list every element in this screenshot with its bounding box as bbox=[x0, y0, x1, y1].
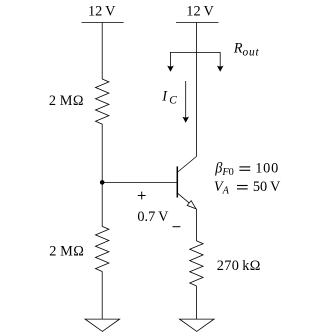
svg-text:50 V: 50 V bbox=[253, 179, 281, 195]
svg-text:2 MΩ: 2 MΩ bbox=[49, 93, 84, 109]
svg-text:12 V: 12 V bbox=[186, 3, 214, 19]
svg-text:270 kΩ: 270 kΩ bbox=[217, 258, 261, 274]
svg-text:100: 100 bbox=[255, 161, 279, 177]
svg-text:2 MΩ: 2 MΩ bbox=[49, 244, 84, 260]
svg-text:12 V: 12 V bbox=[88, 3, 116, 19]
svg-text:0.7 V: 0.7 V bbox=[137, 209, 169, 225]
